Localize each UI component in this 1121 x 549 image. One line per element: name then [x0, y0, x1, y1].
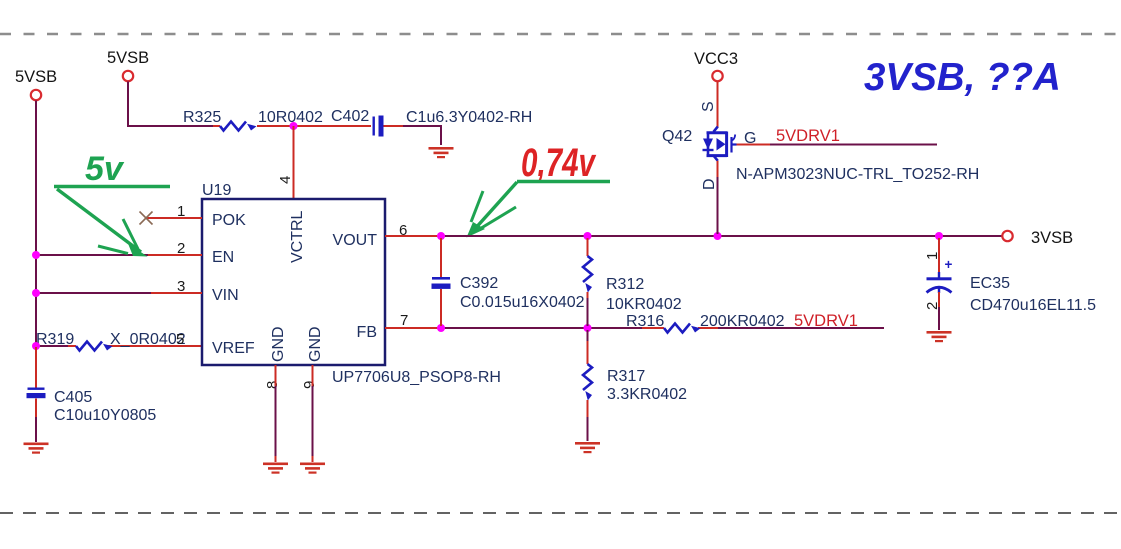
svg-text:GND: GND [307, 326, 324, 362]
node junction VOUT Q42 drain [714, 232, 722, 240]
wire EN horizontal [36, 254, 148, 256]
wire VREF segment [36, 345, 202, 347]
svg-text:X_0R0402: X_0R0402 [110, 331, 186, 348]
annotation 5v green [54, 150, 170, 257]
svg-text:VOUT: VOUT [333, 232, 378, 249]
svg-text:UP7706U8_PSOP8-RH: UP7706U8_PSOP8-RH [332, 369, 501, 386]
svg-text:C10u10Y0805: C10u10Y0805 [54, 407, 156, 424]
no-connect X on pin 1 [140, 212, 153, 225]
resistor R319 [36, 331, 186, 351]
bottom dashed frame border [0, 512, 1121, 514]
pin 1 POK [146, 203, 246, 229]
ground R317 [575, 442, 600, 453]
node junction FB R312 [584, 324, 592, 332]
wire Q42 drain to bus [717, 161, 719, 234]
wire to C405 [35, 347, 37, 388]
pin 7 FB [357, 312, 441, 341]
svg-text:R312: R312 [606, 276, 644, 293]
wire C402 to ground [384, 126, 442, 145]
svg-text:R316: R316 [626, 313, 664, 330]
svg-text:+: + [945, 257, 953, 272]
capacitor C392 [432, 238, 585, 326]
node junction left rail EN [32, 251, 40, 259]
svg-text:3: 3 [177, 278, 185, 295]
pin 9 GND [301, 326, 324, 462]
node junction FB C392 [437, 324, 445, 332]
ground pin 8 [263, 463, 288, 474]
svg-text:VCTRL: VCTRL [289, 210, 306, 263]
svg-text:EN: EN [212, 249, 234, 266]
node junction left rail VIN [32, 289, 40, 297]
svg-text:VREF: VREF [212, 340, 255, 357]
port 5VSB top [107, 49, 149, 81]
top dashed frame border [0, 33, 1121, 35]
svg-text:C1u6.3Y0402-RH: C1u6.3Y0402-RH [406, 109, 532, 126]
node junction VOUT R312 [584, 232, 592, 240]
svg-text:5VSB: 5VSB [107, 49, 149, 67]
ground EC35 [927, 331, 952, 342]
svg-text:VIN: VIN [212, 287, 239, 304]
svg-text:S: S [700, 101, 717, 112]
resistor R325 [183, 109, 323, 131]
pin 5 VREF [176, 331, 255, 357]
svg-text:VCC3: VCC3 [694, 50, 738, 68]
pin 4 VCTRL [277, 176, 306, 263]
wire C405 to ground [35, 399, 37, 443]
svg-text:6: 6 [399, 222, 407, 239]
svg-text:3VSB, ??A: 3VSB, ??A [864, 56, 1061, 99]
node junction VOUT C392 [437, 232, 445, 240]
node junction left rail VREF [32, 342, 40, 350]
IC U19 body [202, 182, 501, 386]
svg-text:5VDRV1: 5VDRV1 [776, 127, 840, 145]
ground pin 9 [300, 463, 325, 474]
svg-text:3VSB: 3VSB [1031, 229, 1073, 247]
pin 8 GND [264, 326, 287, 462]
svg-text:200KR0402: 200KR0402 [700, 313, 785, 330]
wire left 5VSB rail vertical [35, 101, 37, 348]
wire VOUT main bus [441, 235, 1002, 237]
capacitor C405 [27, 388, 157, 425]
svg-text:POK: POK [212, 212, 246, 229]
wire R325 to junction to C402 [257, 125, 371, 127]
svg-text:10KR0402: 10KR0402 [606, 296, 682, 313]
wire pin4 vertical [293, 126, 295, 199]
svg-text:8: 8 [264, 381, 281, 389]
svg-text:FB: FB [357, 324, 377, 341]
svg-text:D: D [701, 178, 718, 190]
annotation 0,74v red [467, 141, 611, 238]
wire VIN horizontal [36, 292, 151, 294]
svg-text:C0.015u16X0402: C0.015u16X0402 [460, 294, 585, 311]
svg-text:U19: U19 [202, 182, 231, 199]
port 5VSB left [15, 68, 57, 100]
svg-text:R325: R325 [183, 109, 221, 126]
port 3VSB [1002, 229, 1073, 247]
resistor R317 [583, 330, 687, 441]
svg-text:C402: C402 [331, 108, 369, 125]
capacitor C402 [331, 108, 532, 137]
capacitor EC35 polarized [924, 238, 1096, 330]
svg-text:R317: R317 [607, 368, 645, 385]
transistor Q42 [662, 101, 979, 190]
svg-text:C392: C392 [460, 275, 498, 292]
pin 6 VOUT [333, 222, 441, 249]
resistor R312 [583, 238, 682, 326]
pin 2 EN [148, 240, 234, 266]
svg-text:5: 5 [176, 331, 184, 348]
svg-text:CD470u16EL11.5: CD470u16EL11.5 [970, 297, 1096, 314]
svg-text:C405: C405 [54, 389, 92, 406]
wire 5VSB to R325 [128, 82, 220, 127]
svg-text:Q42: Q42 [662, 128, 692, 145]
node junction VOUT EC35 [935, 232, 943, 240]
wire VCC3 to Q42 source [717, 82, 719, 128]
svg-text:1: 1 [177, 203, 185, 220]
svg-text:R319: R319 [36, 331, 74, 348]
ground C402 [429, 147, 454, 158]
wire FB net [441, 327, 884, 329]
svg-text:5v: 5v [85, 150, 125, 188]
svg-text:5VDRV1: 5VDRV1 [794, 312, 858, 330]
svg-text:N-APM3023NUC-TRL_TO252-RH: N-APM3023NUC-TRL_TO252-RH [736, 166, 979, 183]
svg-text:EC35: EC35 [970, 275, 1010, 292]
svg-text:7: 7 [400, 312, 408, 329]
svg-text:GND: GND [270, 326, 287, 362]
svg-text:5VSB: 5VSB [15, 68, 57, 86]
svg-text:1: 1 [924, 252, 941, 260]
ground C405 [24, 443, 49, 454]
svg-text:3.3KR0402: 3.3KR0402 [607, 386, 687, 403]
node junction VCTRL [290, 122, 298, 130]
svg-text:9: 9 [301, 381, 318, 389]
resistor R316 [626, 312, 858, 333]
port VCC3 [694, 50, 738, 81]
svg-text:4: 4 [277, 176, 294, 184]
svg-text:0,74v: 0,74v [521, 141, 597, 185]
wire Q42 gate net 5VDRV1 [737, 127, 938, 145]
pin 3 VIN [151, 278, 239, 304]
svg-text:2: 2 [177, 240, 185, 257]
